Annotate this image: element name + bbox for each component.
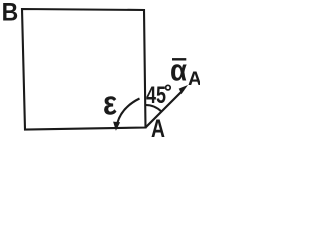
45° angle arc at corner A bbox=[145, 105, 161, 112]
epsilon curved arrow (angular acceleration) bbox=[113, 99, 139, 131]
acceleration vector a_A (45° arrow from corner A) bbox=[146, 85, 189, 128]
label A (bottom-right corner) bbox=[151, 115, 165, 143]
a_A label with overbar bbox=[170, 53, 202, 91]
svg-text:α: α bbox=[170, 53, 187, 88]
epsilon label bbox=[103, 84, 117, 122]
label B (top-left corner) bbox=[2, 0, 19, 27]
svg-text:45: 45 bbox=[146, 82, 166, 109]
svg-text:ε: ε bbox=[103, 84, 117, 122]
svg-text:A: A bbox=[188, 69, 200, 90]
square plate outline bbox=[22, 9, 146, 130]
svg-text:B: B bbox=[2, 0, 19, 27]
45° label bbox=[146, 82, 170, 109]
